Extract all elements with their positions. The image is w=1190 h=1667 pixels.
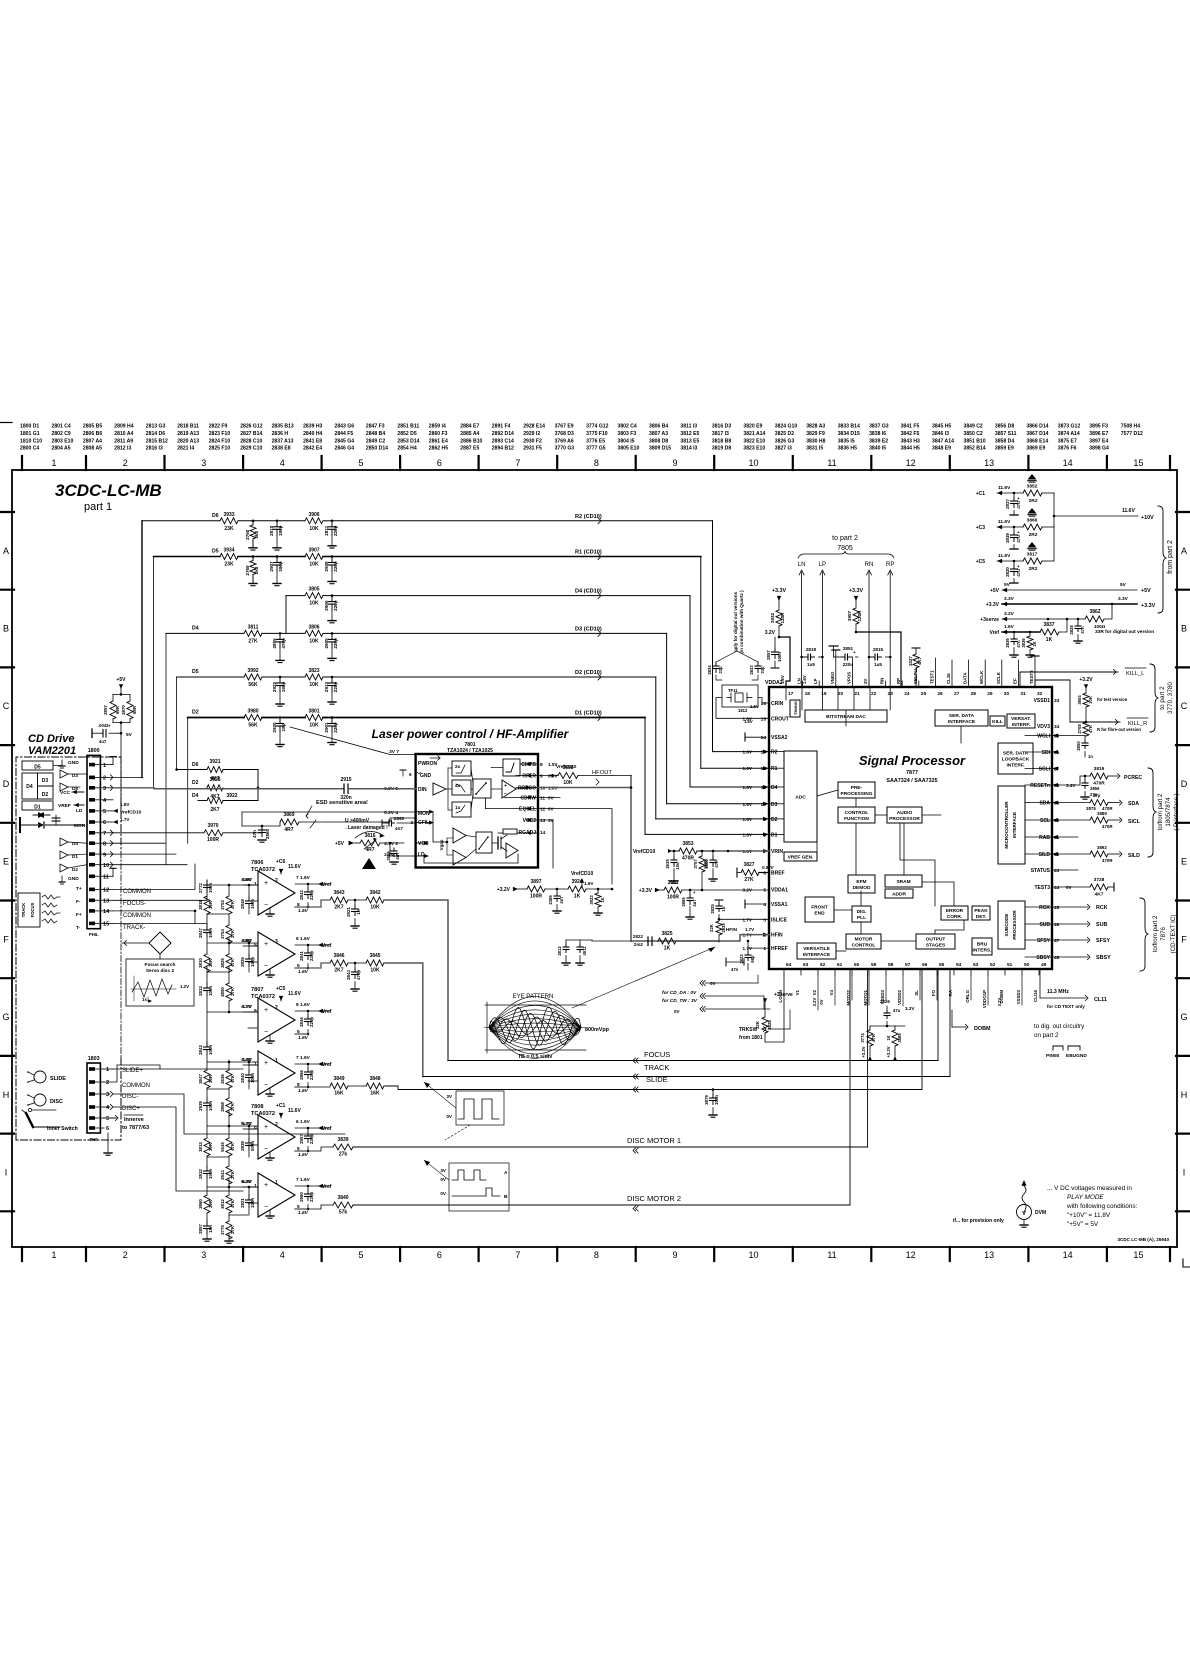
svg-text:VrefCD10: VrefCD10 — [633, 849, 655, 855]
svg-text:T+: T+ — [76, 886, 82, 892]
capacitor 2869 4u7 — [389, 843, 391, 848]
svg-text:3829 F9: 3829 F9 — [806, 431, 825, 437]
resistor 3933 23K — [220, 518, 238, 524]
resistor 3862 33R — [1085, 616, 1104, 622]
svg-text:3757: 3757 — [693, 859, 698, 869]
resistor 3842 10K — [366, 897, 384, 903]
svg-text:PIN50: PIN50 — [1046, 1053, 1060, 1059]
capacitor 2839 47u — [1013, 527, 1015, 531]
svg-text:VERSATILE: VERSATILE — [803, 946, 830, 952]
resistor 3774 47K — [867, 1030, 873, 1046]
svg-text:15: 15 — [761, 716, 767, 722]
svg-text:220p: 220p — [333, 525, 338, 536]
svg-text:PHIL: PHIL — [89, 932, 99, 937]
capacitor 2921 1n — [354, 899, 357, 902]
svg-text:1: 1 — [103, 763, 106, 769]
svg-text:11: 11 — [540, 796, 545, 802]
svg-text:2891 F4: 2891 F4 — [492, 424, 511, 430]
svg-text:3813 E5: 3813 E5 — [680, 438, 699, 444]
capacitor 2885 4u7 — [689, 890, 691, 894]
svg-text:100n: 100n — [208, 1169, 213, 1179]
svg-text:part 1: part 1 — [84, 501, 112, 513]
svg-text:LN: LN — [797, 678, 802, 684]
svg-text:3933: 3933 — [223, 512, 234, 518]
svg-text:2805 B5: 2805 B5 — [83, 424, 102, 430]
svg-text:3879: 3879 — [704, 1095, 709, 1105]
svg-text:27K: 27K — [230, 1102, 235, 1111]
svg-text:2818 B11: 2818 B11 — [177, 424, 199, 430]
svg-text:2853 D14: 2853 D14 — [397, 438, 419, 444]
svg-text:VrefCD10: VrefCD10 — [571, 871, 593, 877]
svg-text:2860: 2860 — [265, 828, 270, 839]
svg-text:2m2: 2m2 — [634, 942, 644, 947]
svg-text:3.2V: 3.2V — [905, 1006, 915, 1011]
svg-text:1: 1 — [106, 1067, 109, 1073]
capacitor 2836 47n — [1013, 632, 1015, 636]
op-amp ground pin — [269, 908, 271, 913]
resistor 3846 2K7 — [330, 960, 348, 966]
svg-text:Focus search: Focus search — [145, 962, 176, 968]
svg-text:3806: 3806 — [308, 624, 319, 630]
capacitor 2635 10u — [673, 851, 675, 856]
svg-text:12: 12 — [103, 888, 109, 894]
capacitor 2851 220u — [838, 656, 841, 658]
svg-text:Signal Processor: Signal Processor — [859, 753, 966, 768]
svg-text:2814 D6: 2814 D6 — [146, 431, 165, 437]
svg-text:7: 7 — [515, 1250, 520, 1260]
svg-text:3813: 3813 — [198, 1142, 203, 1152]
svg-text:6: 6 — [437, 1250, 442, 1260]
svg-text:7 1.6V: 7 1.6V — [296, 1177, 311, 1183]
svg-text:D3: D3 — [771, 802, 778, 808]
svg-text:6 1.6V: 6 1.6V — [296, 1119, 311, 1125]
svg-text:PRE-: PRE- — [851, 785, 863, 791]
svg-text:1u: 1u — [721, 906, 726, 911]
svg-text:1K: 1K — [886, 1035, 891, 1040]
resistor 3836 1K — [1029, 632, 1031, 636]
block ADDR — [885, 889, 913, 898]
svg-text:3895 F3: 3895 F3 — [1089, 424, 1108, 430]
svg-text:3848: 3848 — [369, 1076, 380, 1082]
svg-text:3921: 3921 — [209, 759, 220, 765]
svg-text:2857: 2857 — [103, 705, 108, 715]
svg-text:3V: 3V — [440, 1168, 447, 1173]
DVM voltage symbol — [1022, 1180, 1027, 1186]
op-amp minus input wire — [248, 961, 258, 963]
svg-text:220p: 220p — [309, 1134, 314, 1144]
wire +3serve rail — [1002, 618, 1048, 620]
svg-text:2869: 2869 — [386, 851, 391, 861]
Vref arrow — [295, 883, 330, 885]
svg-text:2939: 2939 — [198, 1101, 203, 1111]
svg-text:37p: 37p — [1093, 793, 1101, 798]
svg-text:3840: 3840 — [337, 1195, 348, 1201]
resistor 3801 10K — [305, 715, 323, 721]
svg-text:22K: 22K — [709, 924, 714, 932]
svg-text:150p: 150p — [250, 899, 255, 909]
svg-text:43: 43 — [1054, 868, 1060, 874]
svg-text:3846 I3: 3846 I3 — [932, 431, 949, 437]
block SER. DATA LOOPBACK INTERF. — [998, 743, 1033, 774]
capacitor 2907 390p — [276, 557, 278, 563]
resistor 3728 4K7 TEST3 — [1052, 886, 1090, 888]
svg-text:3896 E7: 3896 E7 — [1089, 431, 1108, 437]
svg-text:+C5: +C5 — [276, 986, 286, 992]
svg-text:BRU: BRU — [977, 942, 988, 948]
svg-text:10K: 10K — [309, 723, 319, 729]
svg-text:2810: 2810 — [269, 525, 274, 536]
svg-text:+3.3V: +3.3V — [772, 588, 787, 594]
svg-text:3806 B4: 3806 B4 — [649, 424, 668, 430]
svg-text:HFREF: HFREF — [771, 946, 788, 952]
svg-text:2635: 2635 — [665, 859, 670, 869]
svg-text:2821: 2821 — [240, 1198, 245, 1208]
power arrow 3852 — [1028, 474, 1037, 480]
column tick marks and numbers — [21, 456, 23, 470]
svg-text:SFSY: SFSY — [1037, 938, 1051, 944]
resistor 3835 22K — [716, 921, 722, 935]
svg-text:4n7: 4n7 — [559, 896, 564, 904]
svg-text:11.6V: 11.6V — [1122, 508, 1135, 514]
wire D3 line — [166, 632, 244, 634]
svg-text:VNEG: VNEG — [830, 671, 835, 684]
op-amp U7806 triangle at 893 — [258, 871, 295, 915]
svg-text:8 1.6V: 8 1.6V — [296, 1002, 311, 1008]
svg-text:0V: 0V — [548, 796, 555, 801]
block MOTOR CONTROL — [846, 934, 881, 949]
wire FOCUS- from pin13 — [113, 899, 207, 901]
svg-text:2857: 2857 — [766, 650, 771, 660]
svg-text:3897: 3897 — [530, 879, 541, 885]
svg-text:3885: 3885 — [897, 1033, 902, 1043]
svg-text:14: 14 — [761, 735, 767, 741]
svg-text:2760: 2760 — [245, 529, 250, 540]
wire web from connector to filters — [113, 776, 143, 778]
buffer amp D8 — [60, 783, 68, 791]
svg-text:−: − — [264, 1146, 268, 1153]
svg-text:3776 E5: 3776 E5 — [586, 438, 605, 444]
svg-text:3850: 3850 — [220, 987, 225, 997]
svg-text:2833: 2833 — [749, 665, 754, 675]
op-amp minus input wire — [248, 1027, 258, 1029]
svg-text:4: 4 — [763, 902, 766, 908]
svg-text:2920: 2920 — [272, 722, 277, 733]
svg-text:VDDO1P: VDDO1P — [982, 990, 987, 1008]
svg-text:COMMON: COMMON — [122, 1083, 150, 1089]
resistor 3837 1K — [1040, 629, 1059, 635]
svg-text:SDI: SDI — [1042, 750, 1051, 756]
svg-text:VCC: VCC — [60, 790, 71, 796]
svg-text:13: 13 — [984, 458, 994, 468]
svg-text:10K: 10K — [309, 526, 319, 532]
svg-text:55: 55 — [939, 962, 945, 968]
svg-text:3805 E10: 3805 E10 — [618, 446, 640, 452]
svg-text:ERROR: ERROR — [946, 908, 964, 914]
resistor 3932 120R — [776, 610, 782, 626]
svg-text:7577 D12: 7577 D12 — [1121, 431, 1143, 437]
svg-text:39R: 39R — [208, 1074, 213, 1083]
inner switch — [26, 1113, 33, 1127]
svg-text:+C5: +C5 — [976, 559, 986, 565]
svg-text:5: 5 — [103, 809, 106, 815]
interior wires — [817, 790, 838, 796]
svg-text:3833 B14: 3833 B14 — [838, 424, 860, 430]
svg-text:3874 A14: 3874 A14 — [1058, 431, 1080, 437]
svg-text:2819 A13: 2819 A13 — [177, 431, 199, 437]
svg-text:2813 G3: 2813 G3 — [146, 424, 166, 430]
svg-text:1x: 1x — [455, 805, 461, 811]
svg-text:SILD: SILD — [1039, 852, 1051, 858]
svg-text:G: G — [1180, 1012, 1187, 1022]
svg-text:7 1.6V: 7 1.6V — [296, 875, 311, 881]
svg-text:3V: 3V — [446, 1094, 453, 1099]
svg-text:2828 C10: 2828 C10 — [240, 438, 262, 444]
svg-text:to dig. out circuitry: to dig. out circuitry — [1034, 1023, 1085, 1030]
svg-text:2861 E4: 2861 E4 — [429, 438, 448, 444]
resistor 2708 47K — [1083, 722, 1089, 736]
VrefCD10 label pin5 — [113, 809, 118, 813]
svg-text:B: B — [3, 624, 9, 634]
svg-text:68R: 68R — [115, 705, 120, 714]
svg-text:3804 I5: 3804 I5 — [618, 438, 635, 444]
block FRONT END — [805, 897, 834, 922]
svg-text:2859 I4: 2859 I4 — [429, 424, 446, 430]
svg-text:3851: 3851 — [667, 880, 678, 886]
svg-text:3844 H5: 3844 H5 — [901, 446, 920, 452]
svg-text:36R: 36R — [208, 900, 213, 909]
capacitor 2860 47n — [261, 826, 263, 830]
svg-text:3830 H8: 3830 H8 — [806, 438, 825, 444]
svg-text:220p: 220p — [333, 682, 338, 693]
svg-text:47K: 47K — [871, 1034, 876, 1042]
svg-text:D5: D5 — [212, 549, 219, 555]
block BRU INTERS. — [972, 938, 992, 955]
svg-text:30: 30 — [1004, 691, 1010, 697]
svg-text:3811 I3: 3811 I3 — [680, 424, 697, 430]
svg-text:3.2V: 3.2V — [812, 997, 817, 1006]
svg-text:PROCESSOR: PROCESSOR — [1012, 910, 1017, 940]
svg-text:3k3: 3k3 — [254, 531, 259, 539]
svg-text:3: 3 — [106, 1092, 109, 1098]
svg-text:2930 F2: 2930 F2 — [523, 438, 542, 444]
svg-text:3866: 3866 — [1027, 518, 1038, 524]
capacitor 2812 100n — [206, 1166, 208, 1171]
svg-text:−: − — [504, 791, 507, 797]
svg-text:47K: 47K — [230, 900, 235, 909]
svg-text:10K: 10K — [370, 905, 380, 911]
svg-text:2866: 2866 — [299, 1070, 304, 1080]
block DIG. PLL — [852, 906, 871, 922]
resistor 3327 4K7 TEST1 pullup — [915, 648, 917, 654]
svg-text:Vref: Vref — [322, 882, 332, 888]
resistor 3818 36R — [204, 896, 210, 914]
svg-text:100n: 100n — [250, 1198, 255, 1208]
svg-text:100n: 100n — [250, 1073, 255, 1083]
brace to part 2 3770 3780 — [1150, 664, 1158, 732]
resistor 3840 57k — [333, 1202, 353, 1208]
svg-text:1.7V: 1.7V — [745, 927, 754, 932]
capacitor 2847 100n — [206, 925, 208, 930]
svg-text:4n7: 4n7 — [395, 826, 403, 831]
svg-text:A: A — [3, 546, 9, 556]
svg-text:2826 G12: 2826 G12 — [240, 424, 263, 430]
svg-text:3808 D8: 3808 D8 — [649, 438, 668, 444]
svg-text:with following conditions:: with following conditions: — [1066, 1203, 1138, 1210]
svg-text:47n: 47n — [252, 830, 257, 838]
svg-text:3777 G5: 3777 G5 — [586, 446, 606, 452]
svg-text:VRIN: VRIN — [771, 849, 783, 855]
pin6 1.7V label — [113, 820, 118, 824]
connector 1803 pin 6 — [89, 1126, 95, 1130]
svg-text:A: A — [504, 1170, 508, 1176]
svg-text:CDRW: CDRW — [521, 796, 537, 802]
svg-text:CD Drive: CD Drive — [28, 733, 74, 745]
wire VCC2 — [538, 820, 553, 868]
wire FOCUS — [448, 1060, 938, 1062]
selector switch box — [473, 779, 491, 798]
svg-text:D6: D6 — [192, 762, 199, 768]
svg-text:+C1: +C1 — [276, 1103, 286, 1109]
svg-text:3775: 3775 — [220, 1225, 225, 1235]
connector 1800 pin 13 — [89, 899, 95, 903]
svg-text:3906: 3906 — [308, 512, 319, 518]
svg-text:3851 B10: 3851 B10 — [964, 438, 986, 444]
svg-text:2957: 2957 — [299, 1134, 304, 1144]
svg-text:9: 9 — [103, 852, 106, 858]
svg-text:VREF GEN.: VREF GEN. — [788, 855, 814, 861]
svg-text:3V: 3V — [548, 818, 555, 823]
svg-text:100R: 100R — [207, 837, 219, 843]
svg-text:STAGES: STAGES — [926, 943, 946, 949]
svg-text:2848 B4: 2848 B4 — [366, 431, 385, 437]
svg-text:3770 G3: 3770 G3 — [555, 446, 575, 452]
svg-text:2822 F9: 2822 F9 — [209, 424, 228, 430]
svg-text:SRAM: SRAM — [896, 879, 910, 885]
svg-text:3809 D15: 3809 D15 — [649, 446, 671, 452]
svg-text:for test version: for test version — [1097, 697, 1128, 702]
svg-text:D4: D4 — [771, 785, 778, 791]
photodiode block D1 — [22, 801, 53, 810]
svg-text:Vref: Vref — [322, 1126, 332, 1132]
svg-text:11: 11 — [827, 1250, 836, 1260]
svg-text:to part 2: to part 2 — [832, 535, 858, 542]
svg-text:34: 34 — [1054, 724, 1060, 730]
capacitor 3879 100n — [712, 1088, 715, 1091]
svg-text:2808 A5: 2808 A5 — [83, 446, 102, 452]
svg-text:100n: 100n — [714, 1095, 719, 1105]
svg-text:220p: 220p — [333, 722, 338, 733]
svg-text:2844 F5: 2844 F5 — [335, 431, 354, 437]
wire 11.6V rail — [1053, 493, 1055, 561]
svg-text:D2: D2 — [192, 710, 199, 716]
capacitor 2957 220p feedback — [307, 1128, 309, 1132]
resistor 3869 4R7 — [262, 825, 280, 827]
svg-text:3: 3 — [275, 939, 278, 945]
svg-text:1K: 1K — [1032, 641, 1037, 646]
svg-text:SLIDE: SLIDE — [50, 1076, 66, 1082]
svg-text:2840: 2840 — [240, 1073, 245, 1083]
svg-text:15: 15 — [1133, 458, 1143, 468]
svg-text:FRONT: FRONT — [811, 905, 828, 911]
capacitor 2850 1n — [1084, 736, 1086, 741]
svg-text:44: 44 — [1054, 885, 1060, 891]
svg-text:for CD_DA : 0V: for CD_DA : 0V — [662, 990, 697, 996]
pin 14 VSSA2 stub — [745, 736, 766, 738]
svg-text:D4: D4 — [192, 793, 199, 799]
svg-text:3807 A3: 3807 A3 — [649, 431, 668, 437]
svg-text:5V: 5V — [1004, 582, 1011, 588]
svg-text:DET.: DET. — [976, 914, 986, 920]
capacitor 2837 47u — [1013, 493, 1015, 497]
svg-text:3957: 3957 — [847, 610, 852, 621]
svg-text:33p: 33p — [760, 666, 765, 674]
svg-text:TRACK: TRACK — [644, 1063, 669, 1072]
Vref arrow — [295, 1127, 330, 1129]
svg-text:2839 H3: 2839 H3 — [303, 424, 322, 430]
svg-text:7808: 7808 — [251, 1104, 263, 1110]
svg-text:3842: 3842 — [369, 890, 380, 896]
svg-text:TRACK: TRACK — [21, 903, 26, 918]
svg-text:1: 1 — [275, 1058, 278, 1064]
svg-text:2844: 2844 — [346, 970, 351, 980]
svg-text:G: G — [2, 1012, 9, 1022]
svg-text:5: 5 — [358, 458, 363, 468]
svg-text:−: − — [264, 1029, 268, 1036]
svg-text:47n: 47n — [1080, 626, 1085, 634]
svg-text:SBSY: SBSY — [1096, 955, 1111, 961]
svg-text:+: + — [1017, 496, 1020, 501]
svg-text:2848: 2848 — [240, 899, 245, 909]
waveform box focus — [456, 1091, 504, 1125]
capacitor 2844 470p — [354, 962, 357, 965]
connector 1800 pin 7 — [89, 831, 95, 835]
svg-text:... V DC voltages measured in: ... V DC voltages measured in — [1047, 1185, 1132, 1192]
connector 1803 wires — [104, 1068, 113, 1070]
SLIDE switch — [34, 1071, 46, 1083]
wire ISLICE — [719, 918, 769, 920]
svg-text:SL: SL — [914, 990, 919, 996]
svg-text:3845: 3845 — [369, 953, 380, 959]
block SUBCODE PROCESSOR — [998, 901, 1025, 949]
svg-text:470p: 470p — [356, 970, 361, 980]
svg-text:+: + — [264, 880, 268, 887]
svg-text:2821 I4: 2821 I4 — [177, 446, 194, 452]
svg-text:470R: 470R — [1102, 858, 1113, 863]
svg-text:53: 53 — [973, 962, 979, 968]
svg-text:3774: 3774 — [860, 1033, 865, 1043]
svg-text:D1 (CD10): D1 (CD10) — [575, 711, 602, 717]
svg-text:from part 2: from part 2 — [1167, 540, 1174, 574]
wire R1 line — [154, 556, 221, 558]
svg-text:1.6V: 1.6V — [298, 1152, 309, 1158]
focus search scope box — [126, 959, 194, 1006]
pin 4 VSSA1 stub — [745, 903, 766, 905]
svg-text:EBUGND: EBUGND — [1066, 1053, 1087, 1059]
resistor 3852 2R2 — [1023, 490, 1042, 496]
svg-text:2913: 2913 — [324, 681, 329, 692]
wire op-amp input row — [243, 1128, 258, 1130]
resistor 3754 27K — [226, 925, 232, 943]
svg-text:2857: 2857 — [198, 1224, 203, 1234]
svg-text:2846: 2846 — [299, 1017, 304, 1027]
svg-text:2886 B10: 2886 B10 — [460, 438, 482, 444]
resistor 3934 23K — [220, 554, 238, 560]
svg-text:11: 11 — [103, 875, 109, 881]
svg-text:2811: 2811 — [324, 525, 329, 535]
gain block 1x — [452, 802, 471, 817]
svg-text:EYE PATTERN: EYE PATTERN — [513, 994, 554, 1000]
svg-text:for CD_TW : 3V: for CD_TW : 3V — [662, 998, 698, 1004]
